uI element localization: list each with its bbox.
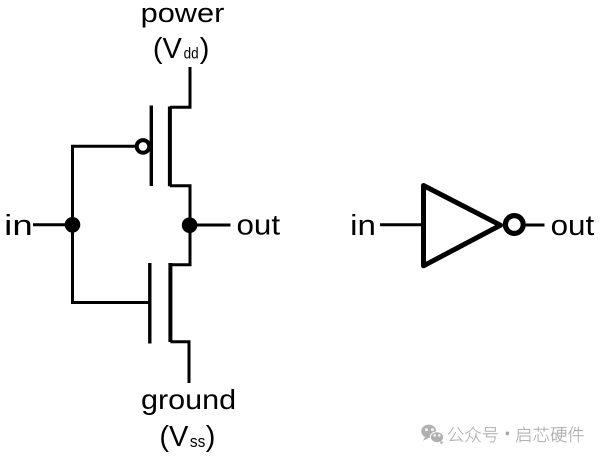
- wire out lead: [197, 224, 231, 227]
- inverter U1 bubble: [505, 216, 523, 234]
- svg-text:out: out: [237, 210, 281, 242]
- transistor Q2 NMOS gate bar: [148, 263, 151, 344]
- svg-text:dd: dd: [184, 45, 199, 62]
- svg-text:(V: (V: [153, 33, 183, 65]
- wire NMOS gate: [71, 301, 149, 304]
- transistor Q2 NMOS source lead to ground: [170, 342, 189, 383]
- svg-text:): ): [206, 421, 216, 453]
- transistor Q1 PMOS channel: [168, 107, 172, 187]
- transistor Q1 PMOS gate bar: [150, 106, 153, 187]
- transistor Q1 PMOS drain lead to out: [170, 186, 190, 225]
- transistor Q1 PMOS gate bubble: [137, 140, 150, 153]
- wire inverter output: [524, 224, 545, 227]
- wire in lead: [33, 223, 73, 226]
- svg-text:ss: ss: [190, 432, 206, 451]
- node out junction: [182, 217, 198, 233]
- label Vss: [159, 421, 215, 453]
- svg-text:out: out: [551, 210, 595, 242]
- node in junction: [65, 217, 81, 233]
- label Vdd: [153, 33, 209, 65]
- wire inverter input: [380, 223, 424, 226]
- svg-text:(V: (V: [159, 421, 189, 453]
- svg-text:power: power: [141, 0, 225, 28]
- svg-text:ground: ground: [141, 384, 236, 415]
- transistor Q2 NMOS channel: [168, 263, 172, 342]
- inverter U1 triangle: [424, 186, 501, 266]
- svg-text:in: in: [4, 210, 32, 242]
- wire PMOS gate: [71, 145, 137, 148]
- wire Vdd to PMOS source: [170, 67, 190, 107]
- transistor Q2 NMOS drain lead from out: [170, 225, 190, 265]
- watermark text gongzhonghao qixin yingjian: [448, 427, 584, 443]
- svg-text:in: in: [350, 210, 376, 242]
- svg-text:): ): [200, 33, 210, 65]
- wire in vertical: [71, 146, 74, 302]
- watermark logo wechat: [421, 425, 444, 445]
